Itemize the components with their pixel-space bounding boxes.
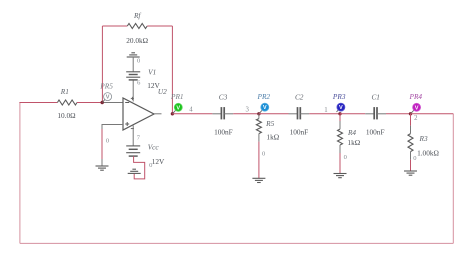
svg-text:0: 0 <box>137 58 140 65</box>
probe PR4 <box>409 92 423 114</box>
svg-text:V: V <box>106 95 110 101</box>
node label 2 <box>414 115 418 122</box>
node label 4 <box>189 107 193 114</box>
ground (non-inverting input) <box>96 166 109 170</box>
ground (below R4) <box>334 174 347 178</box>
wire: PR2 junction to C2 <box>259 113 298 115</box>
svg-text:100nF: 100nF <box>366 127 385 136</box>
svg-text:0: 0 <box>149 162 152 169</box>
svg-text:10.0Ω: 10.0Ω <box>57 111 76 120</box>
svg-text:12V: 12V <box>152 157 165 166</box>
resistor Rf <box>126 11 148 45</box>
svg-text:6: 6 <box>137 80 141 87</box>
svg-text:C1: C1 <box>371 93 380 102</box>
wire: PR3 junction to C1 <box>340 113 374 115</box>
svg-text:Vcc: Vcc <box>148 143 160 152</box>
op-amp U2 <box>123 87 167 130</box>
wire: left vertical of outer loop <box>19 103 21 244</box>
svg-text:R3: R3 <box>419 134 428 143</box>
svg-text:PR4: PR4 <box>409 92 423 101</box>
wire: R4 to ground <box>340 145 347 174</box>
svg-text:100nF: 100nF <box>290 127 309 136</box>
battery V1 <box>126 67 160 90</box>
wire: input node to R1 <box>19 102 57 104</box>
svg-text:12V: 12V <box>147 81 160 90</box>
wire: non-inverting input to ground <box>102 125 123 167</box>
resistor R4 <box>338 114 361 147</box>
wire: R1 to inverting input junction <box>77 102 102 104</box>
resistor R3 <box>408 114 439 158</box>
ground (below R3) <box>404 171 417 175</box>
battery Vcc <box>126 143 165 167</box>
ground (below Vcc, rotated) <box>128 169 141 173</box>
resistor R1 <box>57 87 77 120</box>
svg-text:1: 1 <box>324 107 327 114</box>
node junction at op-amp output (node 4) <box>171 112 174 115</box>
node junction at node 2 <box>409 112 412 115</box>
svg-text:V: V <box>415 105 419 111</box>
svg-text:Rf: Rf <box>133 11 141 20</box>
wire: C3 to PR2 junction <box>224 107 259 114</box>
wire: op-amp inverting input stub <box>102 102 123 104</box>
svg-text:1kΩ: 1kΩ <box>266 132 279 141</box>
wire: feedback left vertical <box>101 26 103 103</box>
svg-text:0: 0 <box>106 138 109 145</box>
wire: right vertical of outer loop <box>452 114 454 244</box>
svg-text:C2: C2 <box>295 93 304 102</box>
svg-text:7: 7 <box>137 135 141 142</box>
svg-text:20.0kΩ: 20.0kΩ <box>126 36 148 45</box>
svg-text:1kΩ: 1kΩ <box>347 138 360 147</box>
wire: op-amp output stub <box>154 113 162 115</box>
wire: C1 to PR4 junction <box>377 113 411 115</box>
wire: feedback top right segment <box>147 25 172 27</box>
svg-text:R4: R4 <box>347 128 356 137</box>
svg-text:4: 4 <box>189 107 193 114</box>
wire: op-amp V- supply stub (pin 7) <box>133 126 141 146</box>
wire: bottom horizontal of outer loop <box>20 242 453 244</box>
wire: feedback right vertical to output junction <box>171 26 173 114</box>
probe PR5 <box>99 81 113 102</box>
capacitor C3 <box>214 93 233 137</box>
svg-text:R5: R5 <box>265 119 274 128</box>
svg-text:R1: R1 <box>60 87 69 96</box>
svg-text:0: 0 <box>344 154 347 161</box>
svg-text:2: 2 <box>414 115 418 122</box>
wire: R5 to ground <box>259 134 265 179</box>
svg-text:V: V <box>263 105 267 111</box>
ground (below R5) <box>252 178 265 182</box>
svg-text:C3: C3 <box>219 93 228 102</box>
svg-text:0: 0 <box>413 155 416 162</box>
svg-text:0: 0 <box>262 151 265 158</box>
svg-text:PR1: PR1 <box>170 92 184 101</box>
wire: C2 to PR3 junction <box>300 107 340 114</box>
svg-text:V1: V1 <box>148 67 156 76</box>
svg-text:1.00kΩ: 1.00kΩ <box>417 149 439 158</box>
wire: op-amp V+ supply stub (pin 6) <box>133 80 141 102</box>
probe PR3 <box>332 92 346 112</box>
svg-text:V: V <box>176 105 180 111</box>
capacitor C1 <box>366 93 385 137</box>
svg-text:PR3: PR3 <box>332 92 346 101</box>
wire: feedback top left segment <box>102 25 127 27</box>
svg-text:3: 3 <box>245 107 249 114</box>
wire: R3 to ground <box>411 152 417 171</box>
ground (above V1, rotated) <box>127 53 141 72</box>
svg-text:100nF: 100nF <box>214 127 233 136</box>
resistor R5 <box>256 114 279 142</box>
wire: output junction to C3 <box>172 113 221 115</box>
wire: PR4 junction to right vertical <box>411 113 454 115</box>
node junction at inverting input <box>101 101 104 104</box>
wire: Vcc negative loop to ground <box>134 156 153 179</box>
node junction at node 1 <box>338 112 341 115</box>
probe PR1 <box>170 92 184 114</box>
svg-text:PR5: PR5 <box>99 81 113 90</box>
probe PR2 <box>257 92 271 114</box>
node junction at node 3 <box>257 112 260 115</box>
svg-text:PR2: PR2 <box>257 92 271 101</box>
svg-text:V: V <box>339 105 343 111</box>
capacitor C2 <box>290 93 309 137</box>
